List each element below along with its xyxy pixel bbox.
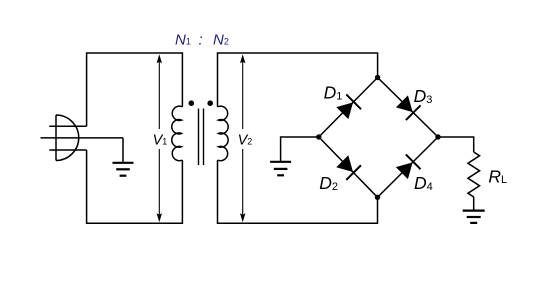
voltmeter arrow V1 — [153, 54, 168, 222]
wire — [473, 197, 475, 210]
node (bridge top junction) — [375, 75, 380, 80]
svg-text::: : — [199, 31, 203, 48]
svg-text:D3: D3 — [414, 86, 433, 106]
wire — [87, 150, 183, 223]
transformer phase dot (secondary) — [207, 100, 213, 106]
wire — [218, 160, 378, 223]
diode D4 — [378, 137, 439, 197]
node (bridge left junction) — [316, 134, 321, 139]
svg-text:RL: RL — [488, 167, 507, 187]
svg-text:D4: D4 — [414, 173, 433, 193]
wire — [438, 137, 474, 152]
diode D3 — [378, 78, 438, 138]
node (bridge right junction) — [435, 134, 440, 139]
resistor RL — [468, 152, 507, 197]
wire — [281, 137, 319, 162]
ground — [113, 138, 134, 176]
transformer T1 primary winding — [172, 106, 183, 161]
diode D2 — [319, 137, 378, 197]
wire — [87, 53, 183, 126]
svg-text:V1: V1 — [153, 133, 168, 149]
svg-text:N1: N1 — [175, 32, 191, 49]
svg-text:V2: V2 — [238, 132, 253, 148]
ground — [463, 211, 485, 223]
svg-text:D2: D2 — [319, 173, 338, 193]
node (bridge bottom junction) — [375, 195, 380, 200]
transformer T1 secondary winding — [218, 106, 229, 161]
ground — [270, 162, 291, 176]
svg-text:D1: D1 — [324, 82, 343, 102]
voltmeter arrow V2 — [238, 54, 253, 222]
diode D1 — [319, 78, 378, 138]
transformer core — [199, 109, 204, 166]
label N1 : N2 — [175, 31, 229, 48]
wire — [218, 53, 378, 107]
svg-text:N2: N2 — [213, 32, 229, 49]
transformer phase dot (primary) — [189, 100, 195, 106]
ac plug P1 — [41, 115, 124, 161]
